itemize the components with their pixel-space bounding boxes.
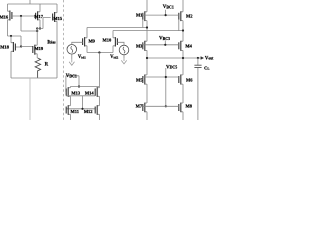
svg-text:M2: M2 <box>186 13 193 18</box>
wire: tail down to cascode sink <box>98 53 100 88</box>
svg-text:VBC3: VBC3 <box>159 37 170 42</box>
svg-text:M17: M17 <box>34 14 43 19</box>
node: gate junction dot <box>20 15 22 17</box>
svg-text:M3: M3 <box>136 43 143 48</box>
transistor M16 <box>8 4 12 36</box>
wire: M13/M14 drain wire <box>70 86 99 88</box>
node: VBC1 stub dot <box>165 14 167 16</box>
transistor M18 <box>11 36 15 78</box>
transistor M12 <box>95 105 99 120</box>
transistor M5 <box>143 75 147 85</box>
node: VDC5 dots <box>165 76 167 78</box>
wire: M17 drain to mirror node <box>36 29 38 46</box>
wire: VBC1 gate wire <box>143 10 179 15</box>
VDD rail (left bias panel) <box>8 0 58 4</box>
svg-text:Vid1: Vid1 <box>78 55 86 60</box>
svg-text:R: R <box>45 62 49 67</box>
svg-text:M14: M14 <box>85 90 94 95</box>
node: folded node 1 dot <box>146 26 148 28</box>
wire: M10 drain output to folded node 2 <box>113 30 183 32</box>
capacitor CL <box>194 58 201 120</box>
transistor M6 <box>179 75 183 85</box>
wire: M9 drain output to folded node 1 <box>87 27 147 29</box>
svg-text:Vid2: Vid2 <box>110 55 118 60</box>
wire: diode node horizontal <box>21 30 37 32</box>
wire: output line to Vout <box>147 57 201 59</box>
svg-text:M7: M7 <box>136 104 143 109</box>
svg-text:M16: M16 <box>0 14 9 19</box>
svg-text:M12: M12 <box>84 109 93 114</box>
svg-text:M19: M19 <box>34 46 43 51</box>
ground arrow of Vid1 <box>69 60 74 66</box>
svg-text:Ibias: Ibias <box>47 40 56 45</box>
node: folded node 2 dot <box>182 29 184 31</box>
wire: diff pair source wire <box>87 52 113 54</box>
svg-text:M9: M9 <box>88 38 95 43</box>
svg-text:VBC1: VBC1 <box>163 5 174 10</box>
node: dot VDC1 to drain wire <box>78 85 80 87</box>
svg-text:M18: M18 <box>0 44 9 49</box>
transistor M13 <box>66 87 71 106</box>
wire: left cascode column <box>146 0 148 120</box>
wire: VDC5 gate wire + tie down to M7/M8 gates <box>143 68 179 106</box>
svg-text:VDC1: VDC1 <box>66 74 77 79</box>
node: dot M17 drain joins M15-gate wire <box>39 27 41 29</box>
wire: cascode gate tie bar <box>66 96 95 109</box>
svg-text:M11: M11 <box>71 109 80 114</box>
arrow to Vout <box>201 56 204 59</box>
svg-text:M1: M1 <box>136 13 143 18</box>
svg-text:M8: M8 <box>186 104 193 109</box>
transistor M15 <box>53 4 57 78</box>
svg-text:VDC5: VDC5 <box>166 65 177 70</box>
transistor M10 <box>113 31 117 53</box>
transistor M11 <box>66 105 70 120</box>
svg-text:M10: M10 <box>103 37 112 42</box>
svg-text:M4: M4 <box>185 43 192 48</box>
node: VBC3 stub dot <box>164 44 166 46</box>
svg-text:M5: M5 <box>136 78 143 83</box>
node: dot at M18 drain tee <box>10 35 12 37</box>
transistor M9 <box>83 28 87 53</box>
node: output dots <box>146 57 148 59</box>
bias VDC1 tap <box>66 76 79 92</box>
transistor M17 <box>36 4 40 29</box>
transistor M8 <box>179 103 183 113</box>
svg-text:CL: CL <box>204 65 209 70</box>
svg-text:Vout: Vout <box>205 56 214 61</box>
transistor M2 <box>179 11 183 31</box>
node: dot at M17 drain column y28.5 <box>36 27 38 29</box>
node: dot gate tie <box>81 108 83 110</box>
transistor M4 <box>179 41 183 51</box>
transistor M3 <box>143 41 147 51</box>
wire: M18-M19 gate wire <box>15 46 32 49</box>
wire: right cascode column <box>182 0 184 120</box>
wire: M16 drain to M18 drain <box>8 36 22 47</box>
source Vid1 <box>67 42 83 59</box>
ground arrow of Vid2 <box>121 58 126 64</box>
transistor M7 <box>143 103 147 113</box>
source Vid2 <box>117 42 128 58</box>
transistor M19 <box>33 45 37 58</box>
dashed separator between bias and core <box>63 0 65 120</box>
ground rail of bias panel <box>11 77 57 79</box>
node: dot at M18/M19 gate junction <box>20 45 22 47</box>
wire: VBC3 gate wire <box>143 40 179 44</box>
wire: gate drop to diode node <box>20 16 22 31</box>
svg-text:M6: M6 <box>186 78 193 83</box>
wire: M16/M17 gate wire <box>12 15 36 17</box>
wire: M7/M8 gate wire <box>143 105 179 107</box>
wire: bias panel ground stub down <box>29 78 31 120</box>
wire: M15 gate path <box>37 18 51 29</box>
node: dot at M17 drain column y31 <box>36 30 38 32</box>
svg-text:M15: M15 <box>53 16 62 21</box>
node: tail junction dot <box>98 51 100 53</box>
svg-text:M13: M13 <box>71 91 80 96</box>
resistor R <box>35 58 40 78</box>
transistor M14 <box>95 87 99 106</box>
transistor M1 <box>143 11 147 27</box>
